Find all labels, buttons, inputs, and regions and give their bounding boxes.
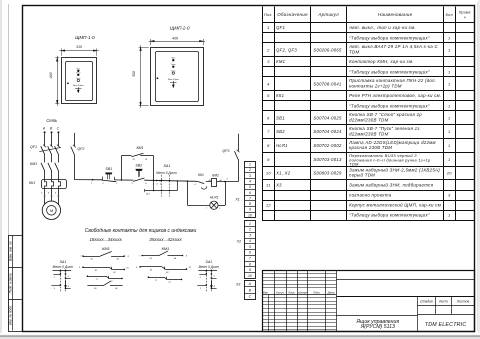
svg-text:QF3: QF3 (222, 149, 229, 153)
svg-text:КК1: КК1 (198, 173, 204, 177)
svg-text:5: 5 (160, 184, 161, 186)
svg-text:500: 500 (132, 71, 136, 77)
svg-text:QF2, QF3: QF2, QF3 (276, 47, 297, 52)
svg-text:“Таблицу выбора комплектующих”: “Таблицу выбора комплектующих” (349, 69, 430, 74)
svg-text:Х3: Х3 (235, 283, 240, 287)
svg-text:Подп.: Подп. (313, 290, 320, 294)
svg-text:1: 1 (448, 157, 451, 162)
svg-text:ТDМ ELECTRIC: ТDМ ELECTRIC (425, 322, 467, 328)
svg-text:400: 400 (172, 36, 178, 40)
svg-text:Лист: Лист (438, 299, 448, 303)
svg-text:2: 2 (266, 47, 270, 52)
svg-text:КМ1: КМ1 (276, 59, 285, 64)
svg-text:Кол.уч: Кол.уч (276, 291, 284, 294)
svg-text:d22мм/230В ТDМ: d22мм/230В ТDМ (349, 117, 389, 122)
svg-text:SB2: SB2 (135, 164, 142, 168)
svg-text:1: 1 (54, 277, 55, 279)
svg-text:положения I–0–II длинная ручка: положения I–0–II длинная ручка 1з+1р (349, 158, 431, 163)
svg-text:Лист: Лист (287, 290, 296, 294)
svg-text:8: 8 (249, 202, 251, 206)
svg-text:Мест 0 Дист: Мест 0 Дист (53, 265, 74, 269)
svg-text:SА1: SА1 (60, 260, 67, 264)
svg-text:HLR1: HLR1 (210, 196, 219, 200)
svg-text:11: 11 (266, 182, 271, 187)
svg-text:10: 10 (248, 213, 252, 217)
svg-text:2: 2 (248, 168, 251, 172)
svg-text:КК1: КК1 (29, 181, 35, 185)
svg-text:КМ1: КМ1 (30, 162, 37, 166)
svg-text:SА1: SА1 (205, 260, 212, 264)
svg-text:ЩМП-1-0: ЩМП-1-0 (75, 35, 95, 40)
svg-text:Дата: Дата (327, 290, 335, 294)
svg-text:1: 1 (448, 81, 451, 86)
svg-text:2: 2 (248, 228, 251, 232)
svg-text:Обозначение: Обозначение (277, 12, 308, 17)
svg-text:“Таблицу выбора комплектующих”: “Таблицу выбора комплектующих” (349, 103, 430, 108)
svg-text:10: 10 (266, 170, 272, 175)
svg-text:SB1: SB1 (276, 115, 285, 120)
svg-text:4: 4 (214, 285, 215, 288)
svg-text:Приме: Приме (459, 11, 471, 15)
svg-text:5: 5 (249, 245, 251, 249)
svg-text:Наименование: Наименование (378, 12, 413, 17)
svg-text:QF2: QF2 (77, 147, 84, 151)
svg-text:1: 1 (448, 35, 451, 40)
svg-text:4: 4 (68, 285, 69, 288)
svg-text:Инв. № подл.: Инв. № подл. (9, 305, 13, 325)
svg-text:400: 400 (49, 72, 53, 78)
svg-text:7: 7 (249, 257, 251, 261)
svg-text:SА1: SА1 (164, 164, 171, 168)
svg-text:ТDМ: ТDМ (349, 162, 359, 167)
svg-text:S00704-0025: S00704-0025 (313, 115, 342, 120)
svg-text:А2: А2 (219, 179, 222, 182)
svg-text:4: 4 (145, 182, 146, 185)
svg-text:“Таблицу выбора комплектующих”: “Таблицу выбора комплектующих” (349, 35, 430, 40)
svg-text:Корпус металлический ЩМП, хар: Корпус металлический ЩМП, хар-ки см (349, 202, 441, 207)
svg-text:Сеть: Сеть (46, 118, 57, 123)
svg-text:Изм: Изм (263, 290, 268, 294)
svg-text:8: 8 (249, 262, 251, 266)
svg-text:3: 3 (249, 233, 251, 237)
svg-text:Листов: Листов (456, 299, 470, 303)
svg-text:серый ТDМ: серый ТDМ (349, 173, 375, 178)
svg-text:35хххх...42хххх: 35хххх...42хххх (149, 237, 182, 242)
svg-text:9: 9 (249, 268, 251, 272)
svg-text:71: 71 (96, 279, 98, 281)
svg-text:1: 1 (448, 129, 451, 134)
svg-text:А1: А1 (208, 179, 211, 182)
svg-text:Контактор КМН, хар-ки см.: Контактор КМН, хар-ки см. (349, 59, 414, 64)
svg-text:1: 1 (249, 163, 251, 167)
svg-text:61: 61 (150, 270, 152, 272)
svg-text:1: 1 (448, 143, 451, 148)
svg-text:Сеть: Сеть (171, 71, 176, 73)
svg-text:согласно проекта: согласно проекта (349, 192, 392, 197)
svg-text:6: 6 (249, 191, 251, 195)
svg-text:1: 1 (267, 25, 270, 30)
svg-text:2: 2 (218, 208, 220, 210)
svg-text:d22мм/230В ТDМ: d22мм/230В ТDМ (349, 131, 389, 136)
svg-text:1: 1 (91, 183, 92, 185)
svg-text:1: 1 (249, 222, 251, 226)
svg-text:S00702-0002: S00702-0002 (313, 143, 342, 148)
svg-text:Зажим наборный ЗНИ, подбирает: Зажим наборный ЗНИ, подбирается (349, 182, 433, 187)
svg-text:HLR1: HLR1 (276, 143, 288, 148)
svg-text:красная 230В ТDМ: красная 230В ТDМ (349, 145, 392, 150)
svg-text:Подп. и дата: Подп. и дата (9, 273, 13, 293)
svg-text:КМ1: КМ1 (212, 173, 219, 177)
svg-text:№докум.: №докум. (298, 291, 308, 294)
svg-text:КК1: КК1 (276, 93, 284, 98)
svg-text:ЩМП-2-0: ЩМП-2-0 (170, 25, 190, 30)
svg-text:Свободные контакты для ящиков: Свободные контакты для ящиков с индексам… (85, 228, 197, 234)
svg-text:контакты 2з+2р) ТDМ: контакты 2з+2р) ТDМ (349, 83, 402, 88)
svg-text:S00703-0013: S00703-0013 (313, 157, 342, 162)
svg-text:9: 9 (249, 208, 251, 212)
svg-text:Артикул: Артикул (317, 12, 339, 17)
svg-text:1: 1 (448, 103, 451, 108)
svg-text:ч: ч (464, 15, 466, 19)
svg-text:20: 20 (446, 170, 453, 175)
svg-text:Х1, Х2: Х1, Х2 (275, 170, 291, 175)
svg-text:SB2: SB2 (276, 129, 285, 134)
svg-text:18хххх...34хххх: 18хххх...34хххх (89, 237, 122, 242)
svg-text:Авт. выкл.ВА47-29 1Р 1А 4,5кА: Авт. выкл.ВА47-29 1Р 1А 4,5кА х-ка С (348, 44, 438, 49)
svg-text:7: 7 (249, 196, 251, 200)
svg-text:Х3: Х3 (275, 182, 282, 187)
svg-text:QF1: QF1 (276, 25, 285, 30)
svg-text:310: 310 (76, 45, 82, 49)
svg-text:Х2: Х2 (236, 240, 241, 244)
svg-text:1: 1 (206, 208, 207, 210)
svg-text:4: 4 (48, 191, 49, 194)
svg-text:Стадия: Стадия (420, 299, 433, 303)
svg-text:Сеть: Сеть (76, 78, 81, 80)
svg-text:Поз.: Поз. (264, 12, 273, 17)
svg-text:Мест 0 Дист: Мест 0 Дист (168, 79, 179, 81)
svg-text:Я(РУСМ) 5113: Я(РУСМ) 5113 (360, 324, 395, 330)
svg-text:дБ-1: дБ-1 (146, 192, 150, 195)
svg-text:S00708-0041: S00708-0041 (313, 81, 341, 86)
svg-text:QF1: QF1 (30, 145, 37, 149)
svg-text:КМ1: КМ1 (162, 246, 170, 251)
svg-text:Кол: Кол (446, 13, 454, 17)
svg-text:1: 1 (448, 69, 451, 74)
svg-text:12: 12 (266, 202, 272, 207)
svg-text:61: 61 (95, 270, 97, 272)
svg-text:1: 1 (448, 212, 451, 217)
svg-text:71: 71 (155, 280, 157, 282)
svg-text:КМ1: КМ1 (136, 146, 143, 150)
svg-text:S00803-0029: S00803-0029 (313, 170, 342, 175)
svg-text:10: 10 (248, 274, 252, 278)
svg-text:Реле РТН электротепловое, хар: Реле РТН электротепловое, хар-ки см. (349, 93, 441, 98)
svg-text:ТDМ: ТDМ (349, 49, 359, 54)
svg-text:1: 1 (200, 277, 201, 279)
svg-text:4: 4 (194, 183, 195, 186)
svg-text:1: 1 (448, 115, 451, 120)
svg-text:14: 14 (145, 158, 147, 161)
svg-text:S00206-0065: S00206-0065 (313, 47, 342, 52)
svg-text:S00704-0024: S00704-0024 (313, 129, 342, 134)
svg-text:Мест 0 Дист: Мест 0 Дист (73, 85, 84, 87)
svg-text:SB1: SB1 (105, 167, 112, 171)
svg-text:4: 4 (249, 180, 251, 184)
svg-text:4: 4 (249, 239, 251, 243)
svg-text:6: 6 (249, 251, 251, 255)
svg-text:3: 3 (249, 174, 251, 178)
svg-text:“Таблицу выбора комплектующих”: “Таблицу выбора комплектующих” (349, 212, 430, 217)
svg-text:Авт. выкл., тип и хар-ки см.: Авт. выкл., тип и хар-ки см. (348, 25, 416, 30)
svg-text:Мест 0 Дист: Мест 0 Дист (156, 171, 177, 175)
svg-text:4: 4 (157, 183, 158, 186)
svg-text:Х1: Х1 (234, 197, 239, 201)
svg-text:Взам. инв. №: Взам. инв. № (9, 241, 13, 261)
svg-text:Мест 0 Дист: Мест 0 Дист (199, 265, 220, 269)
svg-text:5: 5 (249, 185, 251, 189)
svg-text:1: 1 (448, 47, 451, 52)
svg-text:КМ1: КМ1 (102, 246, 110, 251)
